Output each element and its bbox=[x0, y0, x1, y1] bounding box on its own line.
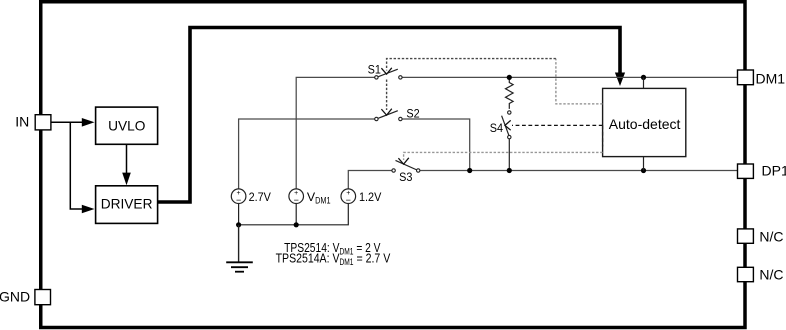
pin pad IN bbox=[35, 115, 51, 130]
junction auto-detect bottom node bbox=[641, 168, 646, 173]
wire S4 to DP1 bbox=[508, 139, 510, 171]
wire UVLO to DRIVER bbox=[122, 144, 131, 185]
pin pad N/C upper bbox=[738, 229, 754, 243]
control dashed segment on auto-detect edge bbox=[602, 125, 604, 146]
svg-text:N/C: N/C bbox=[759, 228, 783, 244]
control arrow onto S2 bbox=[381, 109, 391, 115]
stem VDM1 to bus bbox=[295, 204, 297, 225]
svg-text:DM1: DM1 bbox=[756, 70, 786, 86]
net DM1 wire bbox=[402, 76, 737, 78]
junction S2 drop on DP1 bbox=[467, 168, 472, 173]
junction bus ground bbox=[236, 222, 241, 227]
wire S2 to DP1 node bbox=[402, 119, 469, 171]
switch S1 bbox=[375, 69, 402, 79]
svg-text:DP1: DP1 bbox=[762, 162, 786, 178]
block UVLO bbox=[96, 107, 158, 144]
svg-text:S1: S1 bbox=[368, 63, 381, 77]
pin pad DP1 bbox=[738, 164, 754, 178]
svg-text:UVLO: UVLO bbox=[108, 118, 145, 133]
block DRIVER bbox=[96, 186, 158, 224]
control dashed auto-detect to S1 and S2 bbox=[387, 59, 603, 110]
svg-text:S3: S3 bbox=[399, 170, 412, 184]
net DP1 wire bbox=[420, 170, 738, 172]
wire 2.7V source to S2 bbox=[239, 119, 375, 189]
voltage source VDM1 bbox=[289, 189, 304, 205]
svg-text:1.2V: 1.2V bbox=[359, 190, 382, 204]
pin pad N/C lower bbox=[738, 267, 754, 281]
svg-text:IN: IN bbox=[15, 114, 29, 130]
source bottom bus bbox=[239, 204, 349, 225]
svg-text:2.7V: 2.7V bbox=[249, 190, 272, 204]
control arrow onto S3 bbox=[398, 158, 408, 164]
junction bus VDM1 bbox=[294, 222, 299, 227]
voltage source 2.7V bbox=[231, 189, 246, 205]
thick wire DRIVER output to DM1 arrow bbox=[158, 28, 620, 203]
arrowhead onto DM1 line bbox=[615, 73, 625, 87]
control dashed auto-detect to S4 bbox=[512, 124, 603, 126]
switch S2 bbox=[375, 111, 402, 121]
svg-text:GND: GND bbox=[0, 288, 30, 304]
pin pad DM1 bbox=[738, 70, 754, 85]
stub auto-detect top pin bbox=[643, 77, 645, 88]
svg-text:Auto-detect: Auto-detect bbox=[609, 116, 681, 132]
junction S4 on DP1 bbox=[507, 168, 512, 173]
control arrow onto S4 bbox=[505, 120, 511, 130]
switch S4 bbox=[502, 111, 511, 139]
wire VDM1 source to S1 bbox=[296, 77, 374, 189]
voltage source 1.2V bbox=[341, 189, 356, 205]
control dashed auto-detect to S3 bbox=[404, 152, 603, 160]
junction auto-detect top node bbox=[641, 75, 646, 80]
block Auto-detect bbox=[603, 88, 686, 156]
wire IN branch to DRIVER bbox=[70, 122, 94, 213]
wire IN to UVLO bbox=[50, 118, 95, 127]
control arrow onto S1 bbox=[381, 68, 391, 74]
resistor pull-up on DM1 bbox=[505, 77, 513, 109]
svg-text:DRIVER: DRIVER bbox=[101, 197, 153, 212]
note TPS2514 VDM1 values bbox=[276, 240, 391, 267]
wire 1.2V source to S3 bbox=[348, 171, 392, 190]
junction S1 resistor node bbox=[507, 75, 512, 80]
svg-text:TPS2514A: VDM1 = 2.7 V: TPS2514A: VDM1 = 2.7 V bbox=[276, 251, 391, 268]
svg-text:N/C: N/C bbox=[759, 267, 783, 283]
svg-text:S2: S2 bbox=[406, 106, 419, 120]
stub auto-detect bottom pin bbox=[643, 157, 645, 171]
pin pad GND bbox=[35, 290, 51, 305]
switch S3 bbox=[392, 160, 420, 172]
ground bbox=[226, 225, 253, 272]
svg-text:S4: S4 bbox=[490, 121, 503, 135]
